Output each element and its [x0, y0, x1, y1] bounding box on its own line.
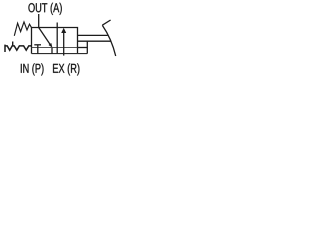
valve body box (top/left/right) [32, 28, 78, 48]
port label EX (R) [53, 63, 79, 75]
valve center divider [56, 23, 58, 54]
detent notched rail [5, 46, 32, 50]
port label IN (P) [21, 63, 44, 75]
valve left edge extension [31, 48, 33, 54]
lever tip arm [102, 20, 110, 25]
detent pin [12, 42, 14, 46]
wire port A line [38, 14, 40, 28]
valve body box bottom edge [32, 47, 78, 49]
actuator pocket bottom / bottom edge extension [78, 47, 88, 49]
base line under valve [32, 53, 88, 55]
port label OUT (A) [28, 3, 61, 15]
flow path arrow (left cell) [39, 28, 50, 45]
port P stem [37, 45, 39, 54]
detent end bar [4, 45, 6, 52]
actuator frame bar [86, 41, 88, 53]
actuator fork lower prong [78, 40, 111, 42]
lever shaft (curved) [102, 25, 115, 56]
actuator fork upper prong [78, 34, 108, 36]
node stub below arrow [51, 48, 53, 54]
blocked port P bar [34, 44, 41, 46]
valve right edge extension [77, 48, 79, 54]
spring (zigzag, top left) [14, 22, 31, 36]
flow path up arrow (right cell, port R) [63, 33, 65, 56]
